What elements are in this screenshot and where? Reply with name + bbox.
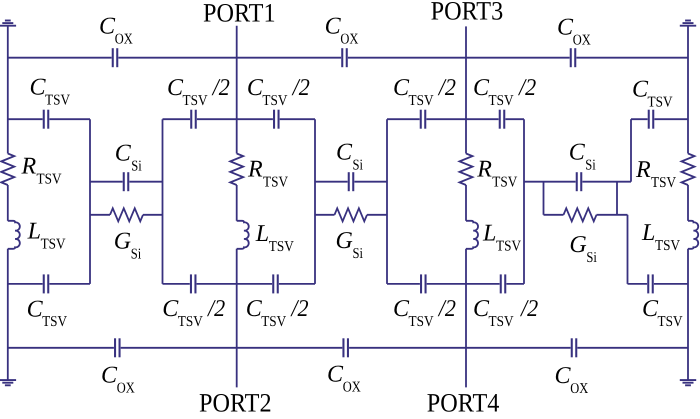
svg-text:PORT2: PORT2	[199, 388, 272, 418]
svg-text:C: C	[555, 363, 572, 389]
svg-text:TSV: TSV	[41, 237, 66, 253]
svg-text:OX: OX	[573, 32, 591, 48]
svg-text:OX: OX	[117, 380, 135, 396]
svg-text:G: G	[336, 228, 353, 254]
svg-text:TSV: TSV	[496, 239, 521, 255]
svg-text:PORT3: PORT3	[431, 0, 504, 26]
svg-text:/2: /2	[437, 296, 456, 322]
svg-text:TSV: TSV	[648, 94, 673, 110]
svg-text:C: C	[27, 296, 44, 322]
svg-text:C: C	[30, 75, 47, 101]
svg-text:TSV: TSV	[178, 314, 203, 330]
svg-text:L: L	[482, 221, 496, 247]
svg-text:G: G	[569, 232, 586, 258]
svg-text:OX: OX	[343, 379, 361, 395]
svg-text:/2: /2	[290, 296, 309, 322]
svg-text:/2: /2	[291, 75, 310, 101]
svg-text:C: C	[632, 77, 649, 103]
svg-text:TSV: TSV	[263, 174, 288, 190]
svg-text:TSV: TSV	[261, 314, 286, 330]
svg-text:TSV: TSV	[45, 93, 70, 109]
svg-text:R: R	[635, 157, 651, 183]
svg-text:/2: /2	[211, 75, 230, 101]
svg-text:TSV: TSV	[489, 314, 514, 330]
svg-text:Si: Si	[353, 246, 364, 262]
svg-text:/2: /2	[437, 75, 456, 101]
svg-text:TSV: TSV	[42, 314, 67, 330]
svg-text:/2: /2	[517, 75, 536, 101]
svg-text:C: C	[101, 363, 118, 389]
svg-text:TSV: TSV	[409, 93, 434, 109]
svg-text:TSV: TSV	[655, 238, 680, 254]
svg-text:/2: /2	[206, 296, 225, 322]
svg-text:C: C	[473, 75, 490, 101]
svg-text:PORT4: PORT4	[427, 387, 500, 417]
svg-text:OX: OX	[115, 31, 133, 47]
svg-text:C: C	[393, 75, 410, 101]
svg-text:G: G	[114, 228, 131, 254]
svg-text:Si: Si	[586, 250, 597, 266]
svg-text:/2: /2	[519, 296, 538, 322]
svg-text:C: C	[393, 296, 410, 322]
svg-text:TSV: TSV	[37, 171, 62, 187]
svg-text:C: C	[167, 75, 184, 101]
svg-text:C: C	[569, 140, 586, 166]
svg-text:R: R	[21, 153, 37, 179]
svg-text:TSV: TSV	[183, 93, 208, 109]
svg-text:TSV: TSV	[658, 314, 683, 330]
svg-text:L: L	[641, 220, 655, 246]
svg-text:L: L	[255, 221, 269, 247]
svg-text:C: C	[99, 14, 116, 40]
svg-text:C: C	[325, 14, 342, 40]
svg-text:TSV: TSV	[489, 93, 514, 109]
svg-text:C: C	[115, 141, 132, 167]
svg-text:TSV: TSV	[651, 175, 676, 191]
svg-text:C: C	[327, 362, 344, 388]
svg-text:TSV: TSV	[269, 239, 294, 255]
svg-text:C: C	[557, 15, 574, 41]
svg-text:C: C	[642, 296, 659, 322]
svg-text:PORT1: PORT1	[203, 0, 276, 27]
svg-text:C: C	[247, 75, 264, 101]
svg-text:Si: Si	[353, 157, 364, 173]
svg-text:TSV: TSV	[262, 93, 287, 109]
svg-text:R: R	[476, 157, 492, 183]
svg-text:Si: Si	[131, 246, 142, 262]
svg-text:C: C	[336, 140, 353, 166]
svg-text:L: L	[27, 219, 41, 245]
svg-text:TSV: TSV	[492, 174, 517, 190]
svg-text:C: C	[246, 296, 263, 322]
svg-text:Si: Si	[131, 158, 142, 174]
svg-text:OX: OX	[340, 31, 358, 47]
svg-text:TSV: TSV	[409, 314, 434, 330]
svg-text:C: C	[162, 296, 179, 322]
svg-text:OX: OX	[570, 381, 588, 397]
svg-text:R: R	[247, 157, 263, 183]
svg-text:C: C	[473, 296, 490, 322]
svg-text:Si: Si	[585, 157, 596, 173]
